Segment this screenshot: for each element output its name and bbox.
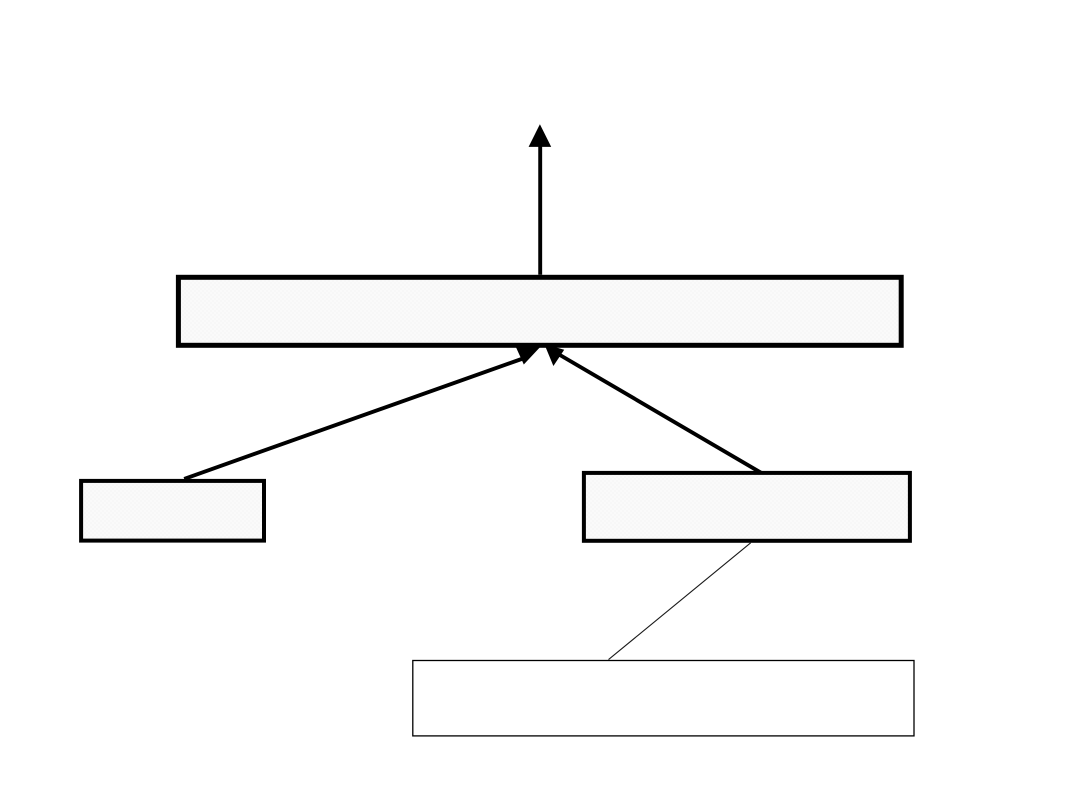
node B: left small box [81, 481, 264, 541]
wire: connector from box B up-right to box A [184, 359, 523, 479]
arrowhead: left arrow into bottom of box A [515, 344, 544, 365]
arrowhead: upward arrow tip above top box [529, 124, 552, 147]
node A: top wide box [178, 277, 901, 345]
node D: bottom note box [413, 661, 914, 736]
wire: arrow shaft rising from top box [538, 146, 542, 275]
wire: connector from box C up-left to box A [557, 353, 763, 473]
node C: right box [584, 473, 910, 541]
arrowhead: right arrow into bottom of box A [544, 344, 564, 366]
wire: thin link from box C down to note box [609, 543, 751, 660]
